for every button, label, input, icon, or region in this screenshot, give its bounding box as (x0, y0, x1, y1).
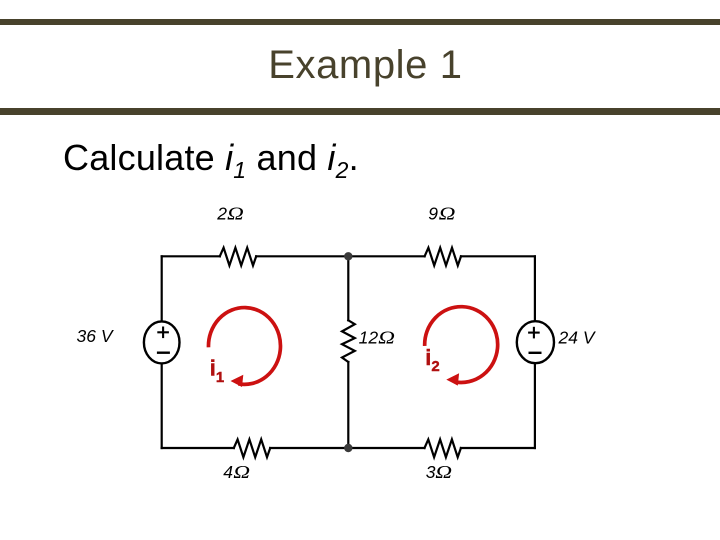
svg-text:12: 12 (359, 327, 379, 347)
wire bottom-right (3ohm to node f) (461, 447, 535, 449)
svg-text:i1: i1 (210, 356, 224, 386)
wire right vertical upper (534, 256, 536, 321)
wire left vertical upper (161, 256, 163, 321)
label 2 ohm (216, 204, 244, 224)
resistor R 9ohm (425, 248, 461, 266)
svg-text:2: 2 (216, 204, 227, 224)
voltage source V2 24V circle (517, 321, 554, 363)
resistor R 12ohm vertical (342, 320, 355, 362)
wire middle vertical upper (node B to 12ohm) (347, 256, 349, 320)
wire top-middle (2ohm to node B) (256, 255, 424, 257)
svg-text:Ω: Ω (439, 205, 456, 224)
resistor R 4ohm (234, 439, 270, 457)
label 9 ohm (428, 204, 455, 224)
V1 minus sign (157, 352, 170, 354)
svg-text:24 V: 24 V (558, 327, 597, 347)
wire right vertical lower (534, 363, 536, 448)
svg-text:4: 4 (223, 462, 233, 482)
svg-text:3: 3 (426, 462, 436, 482)
mesh current loop i2 arc (425, 307, 498, 383)
V1 plus sign (157, 327, 169, 339)
resistor R 2ohm (220, 248, 256, 266)
V2 plus sign (528, 327, 540, 339)
svg-text:Calculate i1 and i2.: Calculate i1 and i2. (63, 137, 359, 183)
svg-text:i2: i2 (425, 345, 439, 375)
top rule bar (0, 19, 720, 26)
resistor R 3ohm (425, 439, 461, 457)
mesh current loop i1 arc (208, 308, 280, 385)
svg-text:9: 9 (428, 204, 438, 224)
title underline bar (0, 108, 720, 115)
voltage source V1 36V circle (144, 321, 180, 363)
svg-text:Ω: Ω (227, 205, 244, 224)
label 3 ohm (426, 462, 452, 482)
label 12 ohm (359, 327, 395, 347)
label 4 ohm (223, 462, 250, 482)
svg-text:Ω: Ω (435, 463, 452, 482)
wire top-right (9ohm to node c) (461, 255, 535, 257)
title Example 1 (268, 45, 462, 85)
svg-text:Ω: Ω (233, 463, 250, 482)
wire left vertical lower (161, 364, 163, 449)
svg-text:36 V: 36 V (77, 326, 115, 346)
wire top-left (node a to 2ohm) (162, 255, 220, 257)
node D junction dot (344, 444, 352, 452)
wire middle vertical lower (12ohm to node D) (347, 362, 349, 448)
mesh current loop i1 arrowhead (231, 375, 244, 387)
wire bottom-left (node e to 4ohm) (162, 447, 234, 449)
wire bottom-middle (4ohm to node D) (270, 447, 424, 449)
mesh current loop i2 arrowhead (446, 373, 459, 385)
node B junction dot (344, 252, 352, 260)
V2 minus sign (529, 352, 542, 354)
svg-text:Ω: Ω (378, 329, 395, 348)
